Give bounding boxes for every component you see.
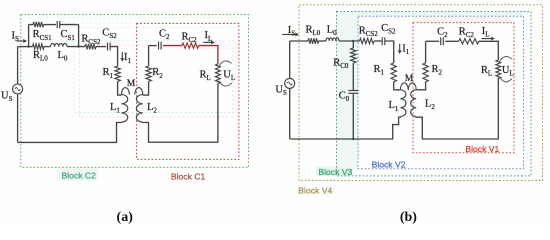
wire: RCS2 to CS2 (b) xyxy=(374,40,382,42)
svg-text:R1: R1 xyxy=(103,67,114,80)
svg-text:CS2: CS2 xyxy=(102,28,117,41)
wire: RCS2 to CS2 xyxy=(96,46,106,48)
svg-text:RC2: RC2 xyxy=(182,32,198,45)
resistor RCS1 xyxy=(33,22,44,27)
capacitor C2 (b) xyxy=(440,37,442,45)
Block V4 olive dashed box xyxy=(299,5,543,181)
wire: node to RC0 (b) xyxy=(352,41,354,48)
node: parallel block left junction (a) xyxy=(27,45,29,47)
svg-text:RL0: RL0 xyxy=(306,24,321,37)
faint magenta dashed segment below IL wire (a) xyxy=(196,47,233,49)
wire: CS2 to R1 riser (b) xyxy=(385,41,393,63)
red wire: RC2 to RL (a) xyxy=(199,46,218,64)
wire: RCS1 to CS1 xyxy=(44,24,57,26)
resistor RL (a) xyxy=(216,64,221,84)
UL voltage arc upper (b) xyxy=(499,56,512,61)
faint cyan dashed top extension (a) xyxy=(57,40,74,42)
red wire: C2 to RC2 (a) xyxy=(163,45,182,47)
resistor RL0 (a) xyxy=(33,44,45,49)
wire: RC2 to RL (b) xyxy=(479,41,499,60)
svg-text:CS1: CS1 xyxy=(61,29,76,42)
svg-text:CS2: CS2 xyxy=(381,23,396,36)
node: parallel block right junction (a) xyxy=(77,45,79,47)
source US (b) xyxy=(285,78,295,88)
wire: R2 to L2 (a) xyxy=(143,81,149,95)
Block C1 red-brown dashed box xyxy=(137,23,239,159)
svg-text:M: M xyxy=(127,79,135,89)
current arrow IS (b) xyxy=(282,34,296,36)
resistor RC2 (a) xyxy=(182,43,199,48)
inductor L1 (a) xyxy=(121,88,129,95)
wire: R2 to L2 (b) xyxy=(416,82,425,90)
wire: L1 bottom to source return (b) xyxy=(290,117,401,139)
wire: R2 riser (b) xyxy=(425,41,427,63)
svg-text:Block C1: Block C1 xyxy=(171,172,206,182)
svg-text:L2: L2 xyxy=(425,99,435,112)
current arrow IS (a) xyxy=(17,40,25,42)
wire: riser to C2 (b) xyxy=(426,40,440,42)
svg-text:RCS1: RCS1 xyxy=(33,29,53,42)
capacitor CS2 (b) xyxy=(381,37,383,45)
resistor RCS2 (a) xyxy=(85,44,96,49)
inductor L1 (b) xyxy=(400,83,408,90)
resistor RC2 (b) xyxy=(459,39,479,44)
current arrow IL (a) xyxy=(203,41,212,43)
Block C2 green dashed box xyxy=(21,15,249,168)
wire: RL0 to L0 (b) xyxy=(319,40,327,42)
wire: CS2 to R1 riser xyxy=(110,47,118,66)
faint magenta auxiliary dashed box (a) xyxy=(80,45,233,117)
resistor RL0 (b) xyxy=(308,38,319,43)
faint cyan dashed line below green top (a) xyxy=(24,17,246,19)
resistor RC0 (b) xyxy=(351,48,356,63)
current arrow I1 (b) xyxy=(399,44,401,51)
wire: source to RL0 (b) xyxy=(290,40,308,42)
faint cyan dashed upper line 2 (a) xyxy=(80,26,235,28)
wire: RL0 to L0 xyxy=(44,46,51,48)
svg-text:Block V2: Block V2 xyxy=(372,160,406,170)
svg-text:RC2: RC2 xyxy=(459,26,475,39)
wire: C2 to RC2 (b) xyxy=(445,40,459,42)
capacitor CS1 xyxy=(56,21,58,28)
resistor R2 (b) xyxy=(423,63,428,82)
svg-text:L1: L1 xyxy=(110,102,120,115)
resistor R2 (a) xyxy=(146,66,151,81)
UL voltage arc lower (a) xyxy=(219,81,232,86)
wire: left rail xyxy=(17,47,19,143)
Block V2 blue dashed box xyxy=(358,16,524,169)
svg-text:I1: I1 xyxy=(402,43,410,56)
svg-text:L1: L1 xyxy=(389,100,399,113)
wire: source top to parallel block xyxy=(18,46,29,48)
svg-text:R2: R2 xyxy=(432,64,443,77)
svg-text:IS: IS xyxy=(288,25,296,38)
wire: top branch lead left xyxy=(29,24,33,26)
svg-text:IL: IL xyxy=(482,26,490,39)
wire: riser to C2 (a) xyxy=(149,45,157,47)
wire: L2 bottom loop to RL rail (b) xyxy=(416,78,498,139)
source US (a) xyxy=(13,84,23,94)
current arrow I1 (a) xyxy=(121,52,123,59)
UL voltage arc upper (a) xyxy=(219,61,232,66)
wire: parallel block left riser xyxy=(28,25,30,47)
mint tint behind Block C2 label xyxy=(57,169,98,181)
faint cyan dashed upper line 1 (a) xyxy=(29,22,236,24)
light tint between V3 and V2 boxes xyxy=(337,12,358,169)
svg-text:Block V4: Block V4 xyxy=(298,185,332,195)
svg-text:C2: C2 xyxy=(159,29,170,42)
mint tint behind Block V3 label xyxy=(316,167,353,176)
faint pink band inside V1 top xyxy=(414,17,513,22)
svg-text:R1: R1 xyxy=(374,64,385,77)
wire: C0 to bottom (b) xyxy=(352,94,354,139)
svg-text:RCS2: RCS2 xyxy=(359,26,379,39)
capacitor C0 (b) xyxy=(348,90,358,92)
inductor L2 (a) xyxy=(135,88,143,95)
svg-text:Block C2: Block C2 xyxy=(62,171,97,181)
svg-text:RL0: RL0 xyxy=(33,50,48,63)
resistor RCS2 (b) xyxy=(360,38,375,43)
svg-text:R2: R2 xyxy=(152,67,163,80)
svg-text:RCS2: RCS2 xyxy=(81,33,101,46)
faint cyan auxiliary dashed box (a) xyxy=(74,41,235,113)
svg-text:Block V1: Block V1 xyxy=(465,144,499,154)
current arrow IL (b) xyxy=(482,38,492,40)
svg-text:L0: L0 xyxy=(58,50,68,63)
svg-text:UL: UL xyxy=(502,65,514,78)
wire: CS1 to right riser xyxy=(60,24,79,26)
resistor R1 (a) xyxy=(115,66,120,81)
wire: R1 to L1 xyxy=(118,81,122,95)
svg-text:IS: IS xyxy=(12,30,20,43)
svg-text:IL: IL xyxy=(205,30,213,43)
wire: L1 bottom to source return xyxy=(18,122,122,142)
inductor L2 (b) xyxy=(408,83,416,90)
svg-text:US: US xyxy=(1,90,13,103)
resistor R1 (b) xyxy=(391,63,396,82)
svg-text:L0: L0 xyxy=(327,24,337,37)
svg-text:I1: I1 xyxy=(124,52,132,65)
wire: R2 top riser (a) xyxy=(148,46,150,66)
svg-text:RL: RL xyxy=(481,65,492,78)
wire: L0 to RCS2 (b) xyxy=(339,40,360,42)
svg-text:Block V3: Block V3 xyxy=(318,167,352,177)
wire: L0 to RCS2 xyxy=(67,46,85,48)
node: shunt branch junction (b) xyxy=(352,40,354,42)
wire: bottom branch lead xyxy=(29,46,33,48)
wire: below RL (a) xyxy=(217,84,219,91)
wire: parallel block right riser xyxy=(78,25,80,47)
capacitor C2 (a) xyxy=(158,42,160,50)
node: shunt bottom junction (b) xyxy=(352,138,354,140)
capacitor CS2 (a) xyxy=(107,43,109,51)
svg-text:(a): (a) xyxy=(117,210,134,225)
Block V1 red dashed box xyxy=(413,23,514,153)
svg-text:L2: L2 xyxy=(147,102,157,115)
inductor L0 (a) xyxy=(51,44,67,47)
svg-text:UL: UL xyxy=(223,69,235,82)
resistor RL (b) xyxy=(496,60,501,79)
wire: RC0 to C0 (b) xyxy=(352,63,354,90)
wire: L2 bottom loop to RL rail (a) xyxy=(143,90,218,142)
wire: R1 to L1 (b) xyxy=(394,82,401,90)
wire: left rail (b) xyxy=(289,41,291,139)
wire: below RL (b) xyxy=(497,79,499,81)
Block V3 green dashed box xyxy=(337,12,532,176)
inductor L0 (b) xyxy=(326,38,339,41)
svg-text:C2: C2 xyxy=(437,26,448,39)
svg-text:RL: RL xyxy=(200,69,211,82)
svg-text:(b): (b) xyxy=(400,210,417,225)
UL voltage arc lower (b) xyxy=(499,76,512,81)
